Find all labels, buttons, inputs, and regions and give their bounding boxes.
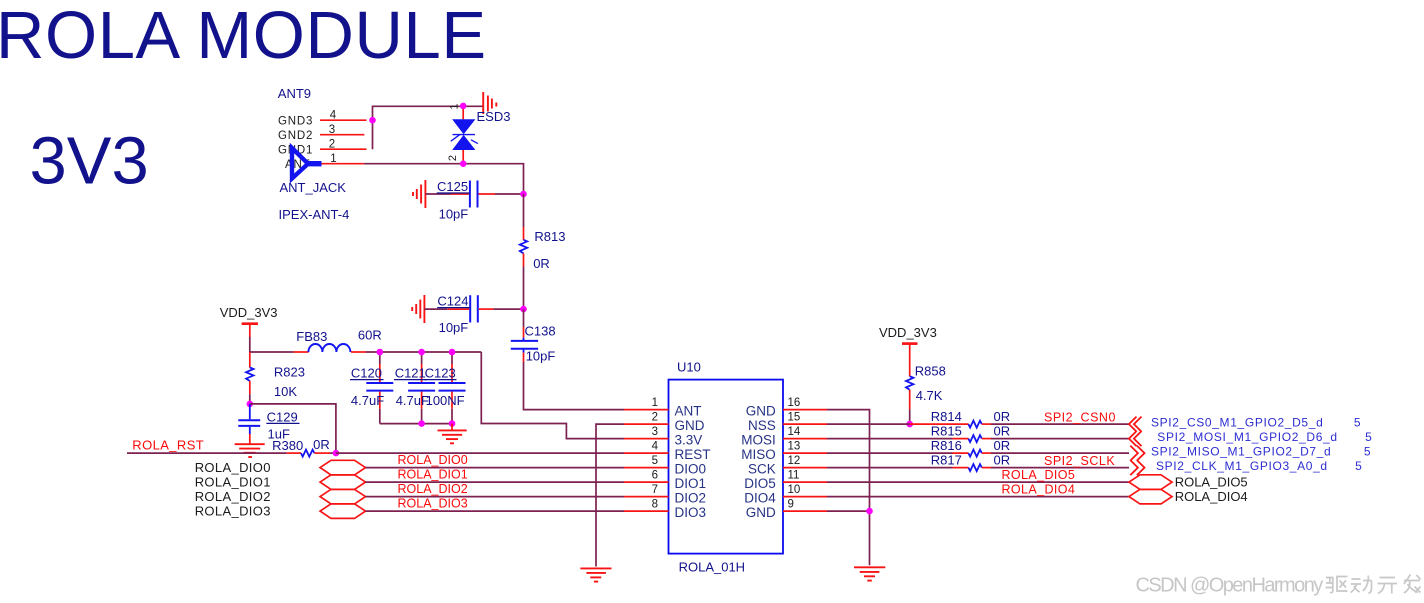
ground at C125 (rotated left) — [413, 180, 425, 208]
svg-text:100NF: 100NF — [426, 393, 465, 408]
svg-text:GND3: GND3 — [278, 115, 313, 127]
svg-text:VDD_3V3: VDD_3V3 — [879, 325, 937, 340]
port label ROLA_DIO1 (black) — [195, 475, 271, 490]
svg-text:8: 8 — [652, 499, 658, 511]
connector ANT9 pin number 2 — [329, 139, 335, 151]
svg-text:0R: 0R — [994, 453, 1011, 468]
sheet entry SPI2_CS0_M1_GPIO2_D5_d — [1151, 415, 1361, 429]
off-sheet connector SPI2_MOSI (left chevrons) — [1129, 431, 1142, 446]
port label ROLA_DIO4 right (black) — [1175, 489, 1248, 504]
svg-text:U10: U10 — [677, 360, 701, 375]
wire VDD to FB83 row — [249, 337, 251, 352]
svg-text:C123: C123 — [425, 366, 456, 381]
resistor R858 — [906, 344, 913, 410]
wire MOSI to R815 — [827, 438, 953, 440]
svg-text:14: 14 — [788, 426, 801, 438]
sheet entry SPI2_CLK_M1_GPIO3_A0_d — [1156, 459, 1362, 473]
node C121 top junction — [418, 349, 425, 356]
svg-text:GND: GND — [746, 505, 776, 520]
C138 designator — [525, 324, 556, 339]
capacitor C124 — [447, 295, 493, 322]
off-sheet connector SPI2_CSN0 (left chevrons) — [1129, 417, 1142, 432]
U10 designator — [677, 360, 701, 375]
svg-text:0R: 0R — [994, 438, 1011, 453]
net label ROLA_RST — [132, 437, 204, 452]
resistor R380 — [287, 450, 330, 457]
svg-text:15: 15 — [788, 412, 801, 424]
wire R823 to C129 — [249, 394, 251, 404]
wire DIO0 — [366, 467, 625, 469]
U10 pin 7 lead — [624, 496, 669, 498]
U10 pin 13 lead — [783, 452, 827, 454]
wire VDD corner to FB83 — [250, 351, 294, 353]
net label ROLA_DIO4 (red) — [1002, 482, 1076, 496]
svg-text:C121: C121 — [395, 366, 426, 381]
svg-text:7: 7 — [652, 484, 658, 496]
U10 pin 9 lead — [783, 510, 827, 512]
svg-text:6: 6 — [652, 470, 658, 482]
net label 3V3 — [30, 124, 149, 199]
U10 pin 8 lead — [624, 510, 669, 512]
port ROLA_DIO2 hexagon — [320, 489, 365, 504]
svg-text:C120: C120 — [351, 366, 382, 381]
U10 pin 6 lead — [624, 481, 669, 483]
svg-text:R814: R814 — [931, 409, 962, 424]
svg-text:ROLA_DIO3: ROLA_DIO3 — [398, 497, 468, 511]
svg-text:16: 16 — [788, 397, 801, 409]
wire C125 left — [425, 193, 450, 195]
svg-text:VDD_3V3: VDD_3V3 — [220, 305, 278, 320]
ESD3 pin number 1 — [449, 103, 461, 109]
U10 pin 4 lead — [624, 452, 669, 454]
node ESD3 pin2 junction — [460, 160, 467, 167]
connector ANT9 pin name ANT — [285, 159, 310, 171]
node C121 bottom junction — [418, 420, 425, 427]
connector ANT9 pin name GND3 — [278, 115, 313, 127]
wire R814 to connector — [991, 423, 1129, 425]
svg-text:REST: REST — [675, 447, 711, 462]
U10 pin 11 lead — [783, 481, 827, 483]
svg-text:MISO: MISO — [741, 447, 776, 462]
connector ANT9 pin 3 lead — [320, 134, 364, 136]
svg-text:SPI2_MISO_M1_GPIO2_D7_d: SPI2_MISO_M1_GPIO2_D7_d — [1151, 444, 1331, 458]
ground at ESD top (rotated) — [483, 92, 496, 114]
wire DIO4 right — [827, 496, 1129, 498]
svg-text:MOSI: MOSI — [741, 432, 776, 447]
sheet entry SPI2_MISO_M1_GPIO2_D7_d — [1151, 444, 1371, 458]
node jack GND junction — [369, 117, 376, 124]
port ROLA_DIO5 hexagon right — [1129, 475, 1172, 490]
R815 value 0R — [994, 424, 1011, 439]
label ANT_JACK — [280, 180, 347, 195]
C124 designator — [437, 294, 470, 309]
ESD3 designator — [477, 109, 511, 124]
off-sheet connector SPI2_CLK (right chevrons) — [1130, 460, 1144, 475]
R814 designator — [931, 409, 962, 424]
svg-text:2: 2 — [652, 412, 658, 424]
svg-text:ESD3: ESD3 — [477, 109, 511, 124]
U10 left pin names — [675, 403, 711, 520]
node pin9 GND junction — [866, 508, 873, 515]
ground at C124 (rotated left) — [412, 295, 424, 323]
svg-text:FB83: FB83 — [296, 329, 327, 344]
svg-text:R380: R380 — [272, 438, 303, 453]
wire capbank bottom rail — [380, 423, 452, 425]
label IPEX-ANT-4 — [279, 207, 350, 222]
capacitor C120 — [366, 352, 393, 424]
svg-text:IPEX-ANT-4: IPEX-ANT-4 — [279, 207, 350, 222]
ground below U10 left — [580, 568, 611, 581]
R823 value 10K — [274, 384, 297, 399]
R814 value 0R — [994, 409, 1011, 424]
connector ANT9 pin 4 lead — [320, 119, 367, 121]
svg-text:ROLA MODULE: ROLA MODULE — [0, 0, 487, 73]
wire R815 to connector — [991, 438, 1129, 440]
C123 value 100NF — [426, 393, 465, 408]
power port VDD_3V3 left — [220, 305, 278, 337]
ground at capbank — [438, 424, 467, 444]
svg-text:5: 5 — [1365, 430, 1372, 444]
wire ROLA_RST left — [127, 452, 287, 454]
svg-text:4.7uF: 4.7uF — [351, 393, 384, 408]
FB83 value 60R — [358, 328, 382, 343]
svg-text:ROLA_DIO4: ROLA_DIO4 — [1175, 489, 1248, 504]
resistor R815 — [953, 435, 992, 442]
svg-text:SPI2_MOSI_M1_GPIO2_D6_d: SPI2_MOSI_M1_GPIO2_D6_d — [1157, 430, 1337, 444]
svg-text:DIO5: DIO5 — [744, 476, 776, 491]
U10 pin 2 lead — [624, 423, 669, 425]
ground below U10 right — [854, 567, 885, 580]
svg-text:12: 12 — [788, 455, 801, 467]
svg-text:ANT9: ANT9 — [278, 86, 311, 101]
R858 designator — [915, 364, 946, 379]
svg-text:ROLA_DIO0: ROLA_DIO0 — [195, 460, 271, 475]
C129 designator — [266, 409, 299, 424]
node C124 junction — [520, 306, 527, 313]
sheet entry SPI2_MOSI_M1_GPIO2_D6_d — [1157, 430, 1372, 444]
svg-text:1: 1 — [652, 397, 658, 409]
svg-text:ROLA_DIO0: ROLA_DIO0 — [398, 453, 468, 467]
svg-text:GND2: GND2 — [278, 130, 313, 142]
wire C125 right — [495, 193, 524, 195]
C125 value 10pF — [439, 207, 469, 222]
node ESD3 pin1 junction — [460, 103, 467, 110]
svg-text:ROLA_DIO1: ROLA_DIO1 — [398, 468, 468, 482]
connector ANT9 pin number 3 — [329, 124, 335, 136]
ESD3 pin number 2 — [447, 155, 459, 161]
svg-text:DIO0: DIO0 — [675, 461, 707, 476]
C129 value 1uF — [268, 426, 290, 441]
R817 value 0R — [994, 453, 1011, 468]
U10 right pin numbers — [788, 397, 801, 511]
U10 pin 14 lead — [783, 438, 827, 440]
C120 designator — [350, 366, 384, 381]
connector ANT9 pin number 4 — [330, 110, 337, 122]
svg-text:DIO4: DIO4 — [744, 490, 776, 505]
wire C124 right — [493, 308, 523, 310]
wire DIO1 — [366, 481, 625, 483]
wire jack GND vertical — [373, 106, 484, 149]
ground at C129 — [235, 444, 265, 457]
wire MISO to R816 — [827, 452, 953, 454]
svg-text:1: 1 — [449, 103, 461, 109]
svg-text:60R: 60R — [358, 328, 382, 343]
net label ROLA_DIO1 (red) — [398, 468, 468, 482]
U10 pin 10 lead — [783, 496, 827, 498]
svg-text:ROLA_DIO5: ROLA_DIO5 — [1002, 468, 1076, 482]
net label SPI2_SCLK — [1044, 454, 1115, 468]
port ROLA_DIO3 hexagon — [320, 504, 365, 519]
wire REST jog — [250, 404, 336, 453]
net label ROLA_DIO3 (red) — [398, 497, 468, 511]
connector ANT9 pin 2 lead — [320, 148, 367, 150]
wire 3V3 rail to U10 pin3 — [481, 352, 624, 439]
wire DIO5 right — [827, 481, 1129, 483]
port label ROLA_DIO2 (black) — [195, 489, 271, 504]
svg-text:ANT_JACK: ANT_JACK — [280, 180, 347, 195]
wire U10 pin9 to GND junction — [827, 510, 870, 512]
svg-text:ROLA_DIO1: ROLA_DIO1 — [195, 475, 271, 490]
wire R380 to junction — [330, 452, 336, 454]
R823 designator — [274, 365, 305, 380]
svg-text:C125: C125 — [437, 179, 468, 194]
wire R858 to NSS row — [909, 409, 911, 424]
svg-text:SPI2_CSN0: SPI2_CSN0 — [1044, 410, 1116, 424]
wire NSS to R814 — [827, 423, 910, 425]
port label ROLA_DIO5 right (black) — [1175, 475, 1248, 490]
svg-text:10: 10 — [788, 484, 801, 496]
svg-text:ROLA_DIO2: ROLA_DIO2 — [195, 489, 271, 504]
capacitor C121 — [408, 352, 435, 424]
node R823/C129 junction — [247, 401, 254, 408]
wire REST to U10 pin4 — [336, 452, 624, 454]
IC U10 body — [669, 380, 784, 554]
svg-text:5: 5 — [1354, 415, 1361, 429]
wire R813 to C124 junction — [523, 267, 525, 310]
svg-text:0R: 0R — [533, 256, 550, 271]
wire C138 to U10 pin1 — [524, 362, 625, 410]
svg-text:R816: R816 — [931, 438, 962, 453]
wire R816 to connector — [991, 452, 1129, 454]
svg-text:4.7K: 4.7K — [916, 388, 943, 403]
svg-text:ROLA_RST: ROLA_RST — [132, 437, 204, 452]
svg-text:R823: R823 — [274, 365, 305, 380]
svg-text:R815: R815 — [931, 424, 962, 439]
svg-text:0R: 0R — [994, 424, 1011, 439]
antenna jack symbol — [292, 148, 322, 179]
resistor R817 — [953, 464, 992, 471]
ferrite bead FB83 — [294, 344, 366, 352]
svg-text:SPI2_SCLK: SPI2_SCLK — [1044, 454, 1115, 468]
svg-text:10pF: 10pF — [439, 207, 469, 222]
svg-text:R813: R813 — [534, 229, 565, 244]
C120 value 4.7uF — [351, 393, 384, 408]
wire R817 to connector — [991, 467, 1129, 469]
off-sheet connector SPI2_MISO (right chevrons) — [1130, 446, 1144, 461]
svg-text:C124: C124 — [437, 294, 468, 309]
TVS diode ESD3 — [451, 106, 478, 164]
net label ROLA_DIO5 (red) — [1002, 468, 1076, 482]
svg-text:SPI2_CS0_M1_GPIO2_D5_d: SPI2_CS0_M1_GPIO2_D5_d — [1151, 415, 1323, 429]
svg-text:SCK: SCK — [748, 461, 776, 476]
wire C125 junction to R813 — [523, 194, 525, 227]
connector ANT9 pin number 1 — [330, 153, 336, 165]
connector ANT9 pin 1 lead — [321, 163, 364, 165]
connector ANT9 designator — [278, 86, 311, 101]
U10 pin 12 lead — [783, 467, 827, 469]
svg-text:5: 5 — [1364, 444, 1371, 458]
svg-text:SPI2_CLK_M1_GPIO3_A0_d: SPI2_CLK_M1_GPIO3_A0_d — [1156, 459, 1328, 473]
wire C124 left — [424, 308, 447, 310]
svg-text:3: 3 — [652, 426, 658, 438]
C123 designator — [424, 366, 457, 381]
watermark CSDN — [1136, 574, 1421, 596]
capacitor C138 — [511, 309, 538, 362]
svg-text:ROLA_DIO3: ROLA_DIO3 — [195, 504, 271, 519]
U10 left pin numbers — [652, 397, 659, 511]
svg-text:DIO3: DIO3 — [675, 505, 707, 520]
wire U10 pin2 GND down — [596, 424, 624, 566]
wire U10 pin16 GND down — [827, 410, 870, 566]
svg-text:DIO1: DIO1 — [675, 476, 707, 491]
connector ANT9 pin name GND2 — [278, 130, 313, 142]
svg-text:ROLA_DIO4: ROLA_DIO4 — [1002, 482, 1076, 496]
U10 pin 15 lead — [783, 423, 827, 425]
svg-text:0R: 0R — [994, 409, 1011, 424]
FB83 designator — [296, 329, 327, 344]
resistor R813 — [520, 227, 527, 267]
svg-text:3.3V: 3.3V — [675, 432, 703, 447]
svg-text:5: 5 — [652, 455, 658, 467]
connector ANT9 pin name GND1 — [278, 144, 313, 156]
svg-text:NSS: NSS — [748, 418, 776, 433]
svg-text:10pF: 10pF — [439, 320, 469, 335]
net label ROLA_DIO2 (red) — [398, 482, 468, 496]
svg-text:0R: 0R — [313, 437, 330, 452]
capacitor C123 — [439, 352, 466, 424]
U10 pin 1 lead — [624, 409, 669, 411]
node C125 junction — [520, 191, 527, 198]
R816 designator — [931, 438, 962, 453]
svg-text:2: 2 — [447, 155, 459, 161]
port ROLA_DIO1 hexagon — [320, 475, 365, 490]
R813 value 0R — [533, 256, 550, 271]
R815 designator — [931, 424, 962, 439]
svg-text:10pF: 10pF — [526, 349, 556, 364]
R816 value 0R — [994, 438, 1011, 453]
R380 designator — [272, 438, 303, 453]
C125 designator — [437, 179, 470, 194]
node C123 bottom junction — [449, 420, 456, 427]
U10 pin 5 lead — [624, 467, 669, 469]
capacitor C125 — [451, 181, 496, 208]
svg-text:11: 11 — [788, 470, 800, 482]
wire DIO3 — [366, 510, 625, 512]
resistor R823 — [246, 352, 253, 394]
node REST junction — [333, 450, 340, 457]
power port VDD_3V3 right — [879, 325, 937, 344]
R858 value 4.7K — [916, 388, 943, 403]
svg-text:GND: GND — [746, 403, 776, 418]
net label ROLA_DIO0 (red) — [398, 453, 468, 467]
svg-text:C129: C129 — [267, 409, 298, 424]
port ROLA_DIO4 hexagon right — [1129, 489, 1172, 504]
C138 value 10pF — [526, 349, 556, 364]
svg-text:10K: 10K — [274, 384, 297, 399]
svg-text:GND: GND — [675, 418, 705, 433]
resistor R816 — [953, 450, 992, 457]
svg-text:CSDN @OpenHarmony: CSDN @OpenHarmony — [1136, 574, 1324, 596]
svg-text:R817: R817 — [931, 453, 962, 468]
R380 value 0R — [313, 437, 330, 452]
svg-text:4.7uF: 4.7uF — [396, 393, 429, 408]
svg-text:4: 4 — [652, 441, 659, 453]
U10 pin 3 lead — [624, 438, 669, 440]
wire FB83 to 3V3 rail — [366, 351, 481, 353]
node R858/NSS junction — [906, 421, 913, 428]
C124 value 10pF — [439, 320, 469, 335]
svg-text:DIO2: DIO2 — [675, 490, 707, 505]
port label ROLA_DIO3 (black) — [195, 504, 271, 519]
U10 right pin names — [741, 403, 776, 520]
C121 designator — [394, 366, 427, 381]
wire DIO2 — [366, 496, 625, 498]
U10 pin 16 lead — [783, 409, 827, 411]
R813 designator — [534, 229, 565, 244]
svg-text:3V3: 3V3 — [30, 124, 149, 199]
U10 value ROLA_01H — [679, 560, 745, 575]
svg-text:9: 9 — [788, 499, 794, 511]
C121 value 4.7uF — [396, 393, 429, 408]
svg-text:ROLA_01H: ROLA_01H — [679, 560, 745, 575]
port ROLA_DIO0 hexagon — [320, 460, 365, 475]
node C123 top junction — [449, 349, 456, 356]
svg-text:R858: R858 — [915, 364, 946, 379]
svg-text:C138: C138 — [525, 324, 556, 339]
port label ROLA_DIO0 (black) — [195, 460, 271, 475]
capacitor C129 — [238, 404, 260, 444]
net label SPI2_CSN0 — [1044, 410, 1116, 424]
svg-text:13: 13 — [788, 441, 801, 453]
wire SCK to R817 — [827, 467, 953, 469]
svg-text:ANT: ANT — [675, 403, 702, 418]
resistor R814 — [910, 421, 991, 428]
svg-text:ROLA_DIO5: ROLA_DIO5 — [1175, 475, 1248, 490]
wire ANT net horizontal — [364, 164, 524, 194]
svg-text:ROLA_DIO2: ROLA_DIO2 — [398, 482, 468, 496]
R817 designator — [931, 453, 962, 468]
svg-text:5: 5 — [1355, 459, 1362, 473]
title ROLA MODULE — [0, 0, 487, 73]
node C120 top junction — [377, 349, 384, 356]
